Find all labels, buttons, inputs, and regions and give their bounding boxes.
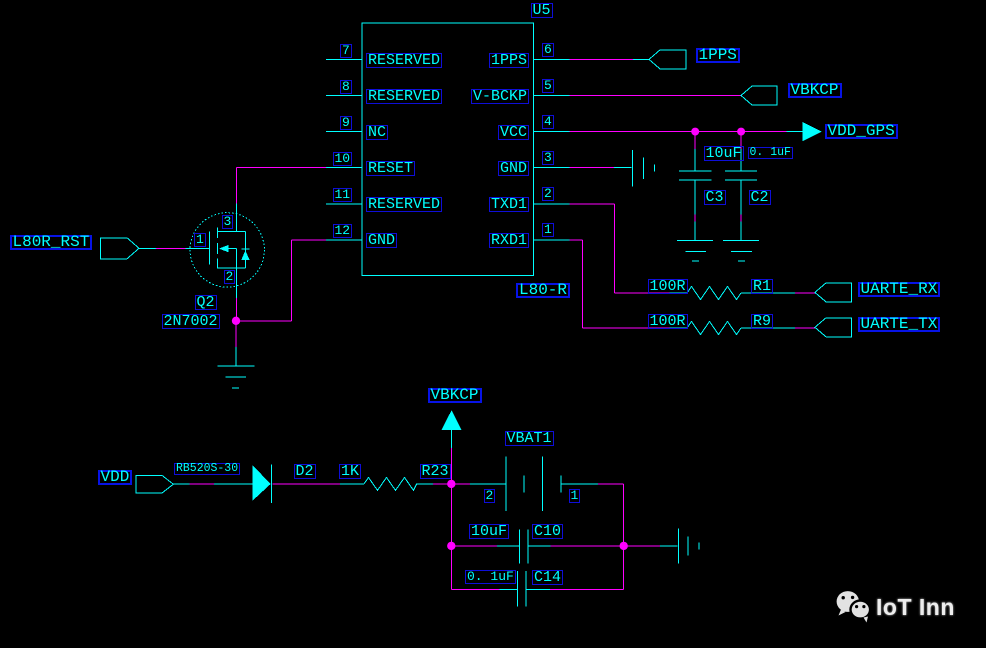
wire pin3 to ground bbox=[570, 167, 632, 169]
value 1K bbox=[339, 464, 361, 479]
wire VDD to D2 anode bbox=[173, 483, 252, 485]
Q2 pin 1 number bbox=[194, 233, 206, 247]
diode D2 bbox=[252, 464, 271, 503]
ground (C3) bbox=[677, 241, 713, 262]
capacitor C3 wire upper bbox=[694, 132, 696, 172]
value 10uF (C3) bbox=[704, 146, 744, 161]
transistor Q2 body circle bbox=[190, 213, 264, 287]
battery pin 1 number bbox=[569, 489, 581, 503]
pin 11 stub bbox=[326, 203, 362, 205]
power port VBKCP arrow bbox=[442, 410, 462, 430]
designator R1 bbox=[751, 279, 773, 294]
value 100R (R9) bbox=[648, 314, 688, 329]
capacitor C10 plates bbox=[520, 530, 529, 564]
pin 5 name V-BCKP bbox=[471, 89, 529, 104]
junction node C10 right bbox=[620, 542, 628, 550]
pin 7 stub bbox=[326, 58, 362, 60]
transistor Q2 source arrow bbox=[219, 245, 229, 253]
port UARTE_TX bbox=[815, 318, 852, 337]
pin 8 name RESERVED bbox=[366, 89, 442, 104]
pin 2 number bbox=[542, 187, 554, 201]
pin 1 number bbox=[542, 223, 554, 237]
designator VBAT1 bbox=[505, 431, 554, 446]
ground (pin3, sideways bars) bbox=[632, 150, 654, 187]
wire D2 to R23 bbox=[272, 483, 364, 485]
value 0.1uF (C14) bbox=[465, 570, 516, 584]
wire C14 right bbox=[526, 588, 624, 590]
transistor Q2 channel bar bbox=[216, 228, 218, 269]
wire pin6 to 1PPS port bbox=[570, 58, 650, 60]
capacitor C3 wire lower bbox=[694, 180, 696, 240]
pin 2 stub bbox=[534, 203, 570, 205]
wire RESET pin10 to Q2 drain bbox=[237, 168, 326, 232]
junction node R23/VBKCP/battery bbox=[447, 480, 455, 488]
capacitor C3 plates bbox=[679, 171, 711, 180]
label U5 bbox=[531, 3, 553, 18]
net label 1PPS bbox=[696, 48, 740, 63]
pin 4 stub bbox=[534, 131, 570, 133]
capacitor C14 plates bbox=[517, 571, 526, 606]
pin 9 stub bbox=[326, 131, 362, 133]
value RB520S-30 bbox=[174, 463, 240, 475]
designator R9 bbox=[751, 314, 773, 329]
ground (C2) bbox=[723, 241, 759, 262]
battery VBAT1 bbox=[506, 456, 561, 511]
port VBKCP bbox=[741, 86, 777, 105]
power port VDD_GPS arrow bbox=[803, 122, 822, 141]
pin 9 name NC bbox=[366, 125, 388, 140]
pin 4 number bbox=[542, 115, 554, 129]
pin 2 name TXD1 bbox=[489, 197, 529, 212]
pin 4 name VCC bbox=[498, 125, 529, 140]
resistor R1 bbox=[687, 287, 741, 300]
pin 1 stub bbox=[534, 239, 570, 241]
designator D2 bbox=[294, 464, 316, 479]
pin 12 number bbox=[333, 224, 353, 238]
ground (Q2) bbox=[218, 366, 255, 388]
pin 6 number bbox=[542, 43, 554, 57]
pin 10 stub bbox=[326, 167, 362, 169]
wire C10 junction to ground bbox=[624, 545, 678, 547]
wire GND pin12 to junction bbox=[236, 240, 326, 321]
designator C14 bbox=[532, 570, 563, 585]
Q2 pin 3 number bbox=[222, 215, 234, 229]
battery pin 2 number bbox=[484, 489, 496, 503]
transistor Q2 drain/source arms bbox=[217, 231, 245, 268]
pin 8 number bbox=[340, 80, 352, 94]
pin 5 number bbox=[542, 79, 554, 93]
wire R1 to UARTE_RX port bbox=[741, 292, 815, 294]
net label UARTE_RX bbox=[858, 282, 941, 297]
wire L80R_RST to gate bbox=[139, 247, 209, 249]
net label VBKCP bbox=[788, 83, 842, 98]
capacitor C2 wire upper bbox=[740, 132, 742, 172]
value 10uF (C10) bbox=[469, 524, 509, 539]
wire battery pin1 right bbox=[561, 483, 624, 485]
junction node VCC/C2 bbox=[737, 128, 745, 136]
pin 1 name RXD1 bbox=[489, 233, 529, 248]
wire left vertical rail bbox=[450, 484, 452, 590]
designator R23 bbox=[420, 464, 451, 479]
net label VBKCP (power) bbox=[428, 388, 482, 403]
pin 3 name GND bbox=[498, 161, 529, 176]
net label VDD_GPS bbox=[825, 124, 898, 139]
designator Q2 bbox=[195, 295, 217, 310]
wire junction to battery pin2 bbox=[451, 483, 506, 485]
pin 10 name RESET bbox=[366, 161, 415, 176]
wire R9 to UARTE_TX port bbox=[741, 327, 815, 329]
junction node Q2 source bbox=[232, 317, 240, 325]
pin 7 number bbox=[340, 44, 352, 58]
wire R23 to junction bbox=[417, 483, 452, 485]
pin 9 number bbox=[340, 116, 352, 130]
net label L80R_RST bbox=[10, 235, 93, 250]
wire pin1 RXD1 to R9 bbox=[570, 240, 687, 328]
wire pin4 VCC net bbox=[570, 131, 803, 133]
ground (battery, sideways bars) bbox=[678, 529, 699, 564]
Q2 pin 2 number bbox=[224, 270, 236, 284]
junction node VCC/C3 bbox=[691, 128, 699, 136]
designator C10 bbox=[532, 524, 563, 539]
designator C2 bbox=[749, 190, 771, 205]
pin 12 name GND bbox=[366, 233, 397, 248]
logo wechat small bubble bbox=[851, 601, 871, 623]
pin 3 stub bbox=[534, 167, 570, 169]
junction node C10 left bbox=[447, 542, 455, 550]
pin 5 stub bbox=[534, 95, 570, 97]
net label UARTE_TX bbox=[858, 317, 941, 332]
wire Q2 source down bbox=[235, 268, 237, 321]
value 2N7002 bbox=[162, 314, 220, 329]
wire junction to ground bbox=[235, 321, 237, 366]
pin 7 name RESERVED bbox=[366, 53, 442, 68]
wire VBKCP arrow down bbox=[450, 430, 452, 484]
wire right vertical rail bbox=[623, 484, 625, 590]
port UARTE_RX bbox=[815, 283, 852, 302]
value 100R (R1) bbox=[648, 279, 688, 294]
logo text IoT Inn bbox=[876, 596, 955, 619]
pin 6 stub bbox=[534, 58, 570, 60]
capacitor C2 wire lower bbox=[740, 180, 742, 240]
net label VDD bbox=[98, 470, 133, 485]
pin 3 number bbox=[542, 151, 554, 165]
label L80-R bbox=[516, 283, 570, 298]
pin 12 stub bbox=[326, 239, 362, 241]
resistor R23 bbox=[364, 477, 417, 490]
port L80R_RST bbox=[101, 238, 140, 259]
transistor Q2 body diode bbox=[241, 231, 249, 268]
designator C3 bbox=[704, 190, 726, 205]
logo wechat big bubble bbox=[837, 591, 859, 615]
pin 11 number bbox=[333, 188, 353, 202]
resistor R9 bbox=[687, 322, 741, 335]
port 1PPS bbox=[649, 50, 686, 69]
pin 10 number bbox=[333, 152, 353, 166]
capacitor C2 plates bbox=[725, 171, 757, 180]
pin 11 name RESERVED bbox=[366, 197, 442, 212]
wire C10 left bbox=[451, 545, 519, 547]
wire pin2 TXD1 to R1 bbox=[570, 204, 687, 293]
transistor Q2 gate bar bbox=[208, 232, 210, 265]
wire C14 left bbox=[451, 588, 517, 590]
value 0.1uF (C2) bbox=[748, 147, 793, 159]
pin 8 stub bbox=[326, 95, 362, 97]
port VDD bbox=[136, 475, 173, 493]
pin 6 name 1PPS bbox=[489, 53, 529, 68]
wire pin5 to VBKCP port bbox=[570, 95, 742, 97]
wire C10 right bbox=[528, 545, 624, 547]
IC U5 body bbox=[362, 23, 534, 276]
